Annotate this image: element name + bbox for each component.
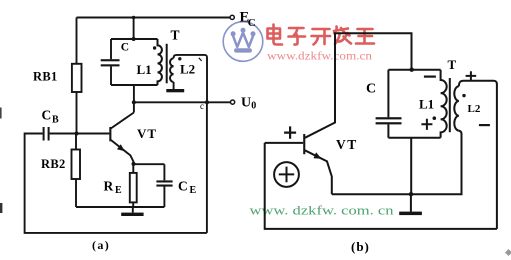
ground under L2 (a) <box>166 89 184 92</box>
inductor L1 coil (a) <box>158 39 162 85</box>
svg-text:RB2: RB2 <box>41 157 66 171</box>
svg-text:C: C <box>366 82 376 97</box>
wire top supply bus <box>77 17 231 19</box>
bottom right gray mark <box>505 249 511 256</box>
inductor L2 coil (b) <box>454 86 459 130</box>
polarity dot L2 (a) <box>178 57 181 60</box>
svg-text:c: c <box>200 101 204 111</box>
capacitor C plates (b) <box>376 117 402 124</box>
svg-text:VT: VT <box>336 137 358 152</box>
wire L2 bottom to ground (a) <box>173 82 175 89</box>
minus sign tank top (b) <box>424 75 436 77</box>
capacitor CE leads <box>163 164 165 207</box>
watermark logo circle <box>223 22 263 62</box>
svg-text:RB1: RB1 <box>33 70 58 84</box>
ground under RE (a) <box>132 207 134 213</box>
wire right vertical (b) <box>496 84 498 229</box>
svg-text:L1: L1 <box>137 62 152 77</box>
wire tank loop bottom edge <box>111 84 158 86</box>
wire tank loop top (b) <box>388 69 440 71</box>
wire tank loop bottom (b) <box>388 137 440 139</box>
minus sign L2 right (b) <box>479 124 490 126</box>
wire tank tap from top bus <box>133 18 135 40</box>
wire left vertical from top bus down to RB1 <box>76 18 78 64</box>
svg-text:T: T <box>448 57 457 72</box>
transistor VT (a) base bar <box>109 127 111 141</box>
wire tank loop left side with capacitor gap <box>110 39 112 85</box>
plus sign near base (b) <box>284 126 296 138</box>
ground (b) <box>410 194 412 211</box>
wire CB left lead and outer left loop <box>25 134 207 233</box>
polarity dot L1 (b) <box>433 116 437 120</box>
inductor L2 coil (a) <box>170 58 174 82</box>
svg-text:E: E <box>115 185 122 196</box>
transistor VT (a) emitter <box>111 140 133 164</box>
svg-text:E: E <box>190 185 197 196</box>
svg-text:U: U <box>241 96 251 111</box>
junction dots (a) <box>75 132 79 136</box>
plus sign L2 top (b) <box>466 71 477 80</box>
resistor RB2 <box>72 150 81 180</box>
resistor RE <box>130 173 137 203</box>
svg-text:0: 0 <box>251 101 256 112</box>
wire RB2 top and bottom <box>75 134 77 208</box>
svg-text:C: C <box>121 42 129 54</box>
capacitor C plates (tank a) <box>101 59 120 66</box>
wire emitter node to CE <box>134 163 165 165</box>
wire L2 top to output right side (a) <box>174 55 207 102</box>
wire emitter node to RE <box>132 164 134 173</box>
emitter arrow (a) <box>117 144 125 151</box>
polarity dot L2 (b) <box>462 94 465 97</box>
terminal U0 circle <box>231 100 235 104</box>
polarity dot L1 (a) <box>153 46 156 49</box>
inductor L1 coil (b) <box>441 70 447 138</box>
left edge scan smudges <box>0 108 2 119</box>
svg-text:www.dzkfw.com.cn: www.dzkfw.com.cn <box>267 51 372 63</box>
wire tank bottom tap / collector vertical <box>133 85 135 113</box>
wire left vertical and bottom rail (b) <box>265 143 497 229</box>
terminal EC circle <box>230 15 234 19</box>
svg-text:T: T <box>171 28 180 43</box>
wire output line to U0 <box>134 101 231 103</box>
wire L2 top to right side (b) <box>459 81 497 87</box>
resistor RB1 <box>72 64 82 92</box>
svg-text:L1: L1 <box>419 97 434 112</box>
wire bottom emitter/ground line <box>76 206 164 208</box>
wire tank loop top edge <box>111 38 158 40</box>
wire outer right vertical to output node <box>206 102 208 233</box>
svg-text:C: C <box>248 17 256 29</box>
junction dots (b) <box>410 68 414 72</box>
svg-text:C: C <box>178 179 188 194</box>
svg-text:L2: L2 <box>180 62 195 77</box>
capacitor CE plates <box>156 180 172 186</box>
tick mark near L2 (a) <box>199 58 202 61</box>
wire base lead (b) <box>265 142 304 144</box>
transistor VT (a) collector <box>111 113 134 129</box>
wire collector up over to tank (b) <box>305 33 412 138</box>
current source circle (b) <box>274 162 299 187</box>
svg-text:L2: L2 <box>468 103 481 115</box>
wire CB right lead to base <box>50 133 110 135</box>
svg-text:www. dzkfw. com. cn: www. dzkfw. com. cn <box>250 203 395 218</box>
transistor VT (b) emitter <box>305 150 332 194</box>
wire RE bottom <box>132 202 134 207</box>
wire RB1 bottom to base node <box>76 92 78 134</box>
watermark chinese text 电子开发王 (stroke approximation) <box>268 25 375 45</box>
svg-text:(a): (a) <box>92 238 110 252</box>
svg-text:(b): (b) <box>351 239 370 254</box>
capacitor CB plates <box>43 127 50 141</box>
transformer core bar (a) <box>166 44 168 84</box>
emitter arrow (b) <box>314 152 322 158</box>
svg-text:R: R <box>104 179 114 194</box>
svg-text:C: C <box>42 108 52 123</box>
svg-text:B: B <box>52 115 59 126</box>
transistor VT (b) base bar <box>303 134 305 154</box>
wire tank bottom tap to ground node (b) <box>410 138 412 194</box>
transformer core bar (b) <box>449 78 451 132</box>
wire tank loop left with capacitor gap (b) <box>387 70 389 138</box>
svg-text:VT: VT <box>137 126 157 141</box>
plus sign tank bottom (b) <box>421 119 432 130</box>
wire emitter runout to L2 bottom (b) <box>332 131 462 195</box>
